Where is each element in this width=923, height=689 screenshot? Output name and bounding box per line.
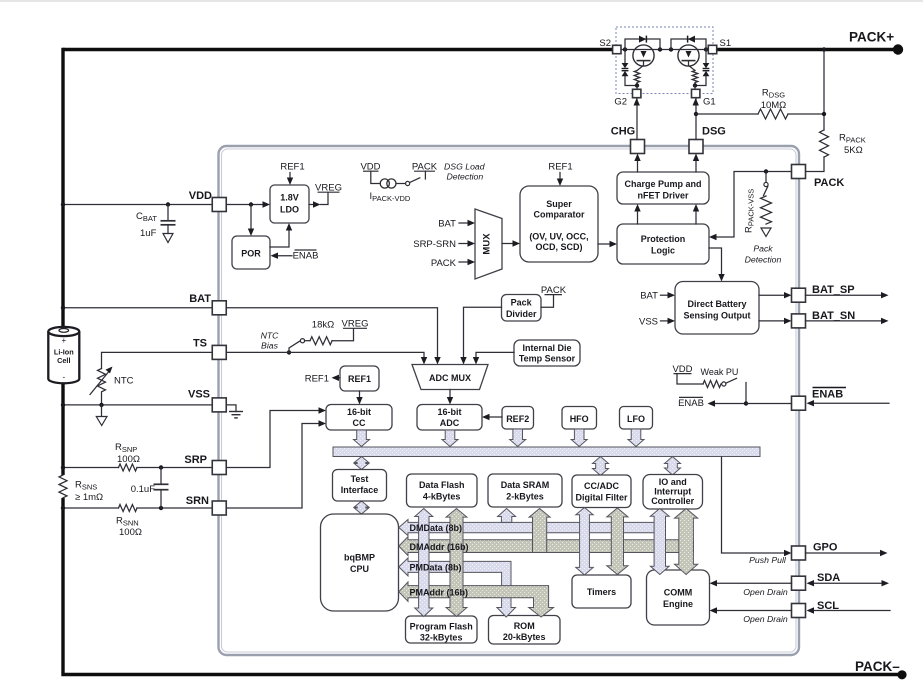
wire MUX to Super Comparator xyxy=(502,240,520,246)
page top border xyxy=(0,0,923,2)
block ROM 20-kBytes xyxy=(489,616,561,645)
svg-text:Interface: Interface xyxy=(341,485,379,495)
resistor Weak PU with switch on ENAB xyxy=(672,364,746,404)
pad ENAB xyxy=(792,388,847,411)
svg-text:REF2: REF2 xyxy=(506,414,529,424)
wire VDD to LDO xyxy=(263,201,271,207)
svg-text:BAT: BAT xyxy=(640,291,658,302)
svg-text:-: - xyxy=(62,373,65,382)
svg-text:G2: G2 xyxy=(614,97,627,108)
resistor NTC xyxy=(90,367,134,405)
wire Protection Logic to Charge Pump (left) xyxy=(634,204,640,224)
svg-text:Pack: Pack xyxy=(753,244,773,254)
svg-text:Cell: Cell xyxy=(57,356,70,365)
svg-text:RPACK-VSS: RPACK-VSS xyxy=(744,189,756,233)
svg-text:CC: CC xyxy=(353,418,366,428)
node REF1 into Super Comparator xyxy=(548,162,572,187)
wire GPO external xyxy=(806,550,888,556)
bus arrow IO to COMM addr (bidir) xyxy=(675,509,698,575)
wire Pack Divider to ADC MUX xyxy=(460,307,501,364)
svg-text:TS: TS xyxy=(193,338,207,350)
svg-text:CHG: CHG xyxy=(611,126,635,138)
pad BAT_SP xyxy=(792,284,855,302)
svg-text:1uF: 1uF xyxy=(140,228,157,239)
wire sensing to BAT_SP pad xyxy=(759,292,792,298)
node BAT into sensing xyxy=(640,291,675,302)
pad BAT xyxy=(189,293,226,315)
node ENAB into POR xyxy=(271,250,319,262)
wire Protection Logic to Direct Battery Sensing xyxy=(709,248,725,282)
block Pack Divider xyxy=(502,295,542,322)
wire PACK pad to Protection Logic xyxy=(709,169,792,240)
block REF1 xyxy=(340,366,379,391)
svg-text:ROM: ROM xyxy=(514,621,535,631)
svg-text:DSG Load: DSG Load xyxy=(444,162,486,172)
bus arrow Digital Filter to Timers addr (bidir) xyxy=(607,508,628,575)
svg-text:Program Flash: Program Flash xyxy=(410,622,473,632)
node PACK into Pack Divider xyxy=(541,285,567,307)
wire VDD row xyxy=(61,202,263,206)
pad SCL xyxy=(792,600,840,618)
block LFO xyxy=(620,407,653,430)
block HFO xyxy=(562,407,597,430)
wire ADC MUX to ADC xyxy=(447,390,453,405)
diode D1 bypass (right loop) xyxy=(671,36,706,50)
svg-text:Controller: Controller xyxy=(651,496,694,506)
svg-text:ENAB: ENAB xyxy=(812,389,843,401)
bus arrow IO to COMM data (bidir) xyxy=(650,509,669,575)
pad SDA xyxy=(792,572,841,590)
svg-text:(OV, UV, OCC,: (OV, UV, OCC, xyxy=(529,232,588,242)
resistor RSNP 100ohm xyxy=(115,442,140,471)
bus PMData (8b) xyxy=(399,558,516,617)
svg-text:REF1: REF1 xyxy=(348,374,371,384)
wire PACK+ top rail (thick) xyxy=(63,44,903,54)
bus arrow Test Interface to CPU (bidir) xyxy=(354,501,368,514)
svg-text:REF1: REF1 xyxy=(548,162,572,173)
svg-text:Data Flash: Data Flash xyxy=(419,480,465,490)
svg-text:CBAT: CBAT xyxy=(136,211,157,223)
bus arrow HFO to bus xyxy=(571,429,587,447)
svg-text:PACK+: PACK+ xyxy=(849,30,894,45)
svg-text:RSNP: RSNP xyxy=(115,442,137,454)
wire PACK- bottom rail (thick) xyxy=(61,670,906,679)
current source IPACK-VDD DSG load detection xyxy=(360,162,437,204)
svg-text:RSNN: RSNN xyxy=(116,516,139,528)
block 16-bit CC xyxy=(326,405,392,431)
bus arrow bus to Test Interface (bidir) xyxy=(354,457,368,470)
wire REF1 to CC xyxy=(356,391,362,405)
svg-text:VSS: VSS xyxy=(188,389,210,401)
wire SDA external xyxy=(807,580,890,586)
bus arrow Data SRAM addr up xyxy=(529,509,550,553)
svg-text:CC/ADC: CC/ADC xyxy=(584,481,619,491)
diode Z2 gate zeners xyxy=(622,50,640,88)
wire VSS row xyxy=(61,403,212,426)
cpu bqBMP CPU xyxy=(321,514,399,611)
IC boundary (gray double border) xyxy=(219,146,800,655)
svg-text:nFET Driver: nFET Driver xyxy=(637,191,689,201)
svg-text:RSNS: RSNS xyxy=(75,480,97,492)
wire bus to GPO (push pull) xyxy=(722,457,792,565)
battery Li-Ion Cell xyxy=(48,327,79,383)
bus arrow Data Flash vertical data (bidir) xyxy=(415,509,433,617)
svg-text:Detection: Detection xyxy=(447,172,484,182)
capacitor CBAT xyxy=(136,205,176,243)
svg-text:IO and: IO and xyxy=(659,477,687,487)
block CC/ADC Digital Filter xyxy=(572,475,631,508)
transistor Q2 CHG nFET xyxy=(633,45,654,71)
bus PMAddr (16b) xyxy=(399,582,554,617)
wire sensing to BAT_SN pad xyxy=(759,318,792,324)
svg-text:PACK: PACK xyxy=(814,177,844,189)
bus arrow LFO to bus xyxy=(628,429,644,447)
pad G2 xyxy=(614,86,641,108)
mux ADC MUX xyxy=(412,365,488,390)
svg-text:REF1: REF1 xyxy=(280,162,304,173)
block Data Flash 4-kBytes xyxy=(407,474,478,507)
pad S2 xyxy=(599,38,621,54)
svg-text:0.1uF: 0.1uF xyxy=(131,484,155,495)
wire BAT_SN external xyxy=(806,318,889,324)
pad PACK xyxy=(792,165,845,190)
wire SRP into CC xyxy=(227,407,327,467)
svg-text:LDO: LDO xyxy=(280,205,299,215)
wire CHG gate drive xyxy=(634,98,640,140)
svg-text:Digital Filter: Digital Filter xyxy=(575,493,628,503)
svg-text:VDD: VDD xyxy=(189,190,212,202)
node SRP-SRN into MUX xyxy=(413,239,475,250)
svg-text:Timers: Timers xyxy=(587,587,616,597)
svg-text:bqBMP: bqBMP xyxy=(344,553,375,563)
svg-text:100Ω: 100Ω xyxy=(119,527,142,538)
wire Super Comparator to Protection Logic xyxy=(598,241,617,247)
pad GPO xyxy=(792,542,838,561)
pad VDD xyxy=(189,190,226,212)
wire VDD to POR xyxy=(248,205,254,237)
svg-text:SRN: SRN xyxy=(186,495,209,507)
pad TS xyxy=(193,338,226,360)
block Test Interface xyxy=(333,470,387,502)
svg-text:BAT_SP: BAT_SP xyxy=(812,284,855,296)
wire S2-S1 internal rail xyxy=(613,47,716,51)
bus arrow CC to bus xyxy=(354,430,370,447)
svg-text:Bias: Bias xyxy=(261,341,279,351)
svg-text:Pack: Pack xyxy=(511,298,533,308)
svg-text:DMAddr (16b): DMAddr (16b) xyxy=(410,542,469,552)
svg-text:32-kBytes: 32-kBytes xyxy=(420,633,463,643)
svg-text:VSS: VSS xyxy=(639,317,658,328)
bus arrow REF2 to bus xyxy=(510,429,526,447)
pad SRP xyxy=(184,454,226,475)
block Protection Logic xyxy=(617,224,709,264)
pad G1 xyxy=(692,86,716,108)
svg-text:PMAddr (16b): PMAddr (16b) xyxy=(410,588,469,598)
block Internal Die Temp Sensor xyxy=(514,340,580,366)
node PACK into MUX xyxy=(431,258,475,269)
label DSG Load Detection xyxy=(444,162,486,182)
resistor RSNN 100ohm xyxy=(116,505,142,539)
svg-text:PMData (8b): PMData (8b) xyxy=(410,563,462,573)
regulator 1.8V LDO U-LDO xyxy=(270,185,309,223)
wire REF2 to ADC xyxy=(482,414,502,420)
svg-text:SRP: SRP xyxy=(184,454,207,466)
svg-text:RDSG: RDSG xyxy=(762,88,785,100)
svg-text:MUX: MUX xyxy=(482,233,493,255)
svg-text:POR: POR xyxy=(241,249,261,259)
wire Charge Pump to CHG pad xyxy=(634,154,640,173)
svg-text:10MΩ: 10MΩ xyxy=(761,100,787,111)
block Charge Pump and nFET Driver xyxy=(617,172,709,204)
block Data SRAM 2-kBytes xyxy=(488,474,562,507)
svg-text:REF1: REF1 xyxy=(305,374,329,385)
svg-text:NTC: NTC xyxy=(261,331,280,341)
svg-text:Logic: Logic xyxy=(651,246,675,256)
svg-text:ADC: ADC xyxy=(440,418,460,428)
svg-text:G1: G1 xyxy=(703,97,716,108)
svg-text:Open Drain: Open Drain xyxy=(743,614,788,624)
svg-text:GPO: GPO xyxy=(813,542,838,554)
svg-text:Open Drain: Open Drain xyxy=(743,587,788,597)
svg-text:CPU: CPU xyxy=(350,564,369,574)
node REF1 output label xyxy=(305,374,340,385)
wire BAT row xyxy=(61,306,212,310)
node VREG output of LDO xyxy=(309,183,342,208)
wire left battery rail (thick) xyxy=(61,48,64,673)
bus arrow Digital Filter to Timers data (bidir) xyxy=(576,508,593,575)
svg-text:Sensing Output: Sensing Output xyxy=(684,311,751,321)
svg-text:Super: Super xyxy=(546,199,572,209)
block Direct Battery Sensing Output xyxy=(675,282,759,335)
wire SRN row xyxy=(61,506,212,510)
wire SDA to COMM (open drain) xyxy=(710,580,792,597)
svg-text:BAT: BAT xyxy=(189,293,211,305)
svg-text:S1: S1 xyxy=(720,38,732,49)
svg-text:SRP-SRN: SRP-SRN xyxy=(413,239,456,250)
svg-text:IPACK-VDD: IPACK-VDD xyxy=(370,191,411,203)
svg-text:Charge Pump and: Charge Pump and xyxy=(624,179,701,189)
mux MUX (comparator input) xyxy=(475,209,502,279)
resistor RSNS sense xyxy=(59,475,103,503)
svg-text:Weak PU: Weak PU xyxy=(701,367,739,377)
svg-text:16-bit: 16-bit xyxy=(347,407,371,417)
bus arrow Data Flash vertical addr (bidir) xyxy=(446,509,467,617)
bus arrow bus to IO Interrupt Controller (bidir) xyxy=(665,457,681,476)
node ENAB internal xyxy=(678,397,791,408)
svg-text:BAT: BAT xyxy=(438,219,456,230)
bus arrow Data SRAM data up xyxy=(498,509,516,523)
pad VSS xyxy=(188,389,226,412)
svg-text:20-kBytes: 20-kBytes xyxy=(503,632,546,642)
wire TS row xyxy=(102,350,292,368)
capacitor 0.1uF xyxy=(131,468,169,509)
pad S1 xyxy=(708,38,731,54)
svg-text:BAT_SN: BAT_SN xyxy=(812,310,855,322)
wire ENAB external xyxy=(807,400,890,406)
svg-text:Test: Test xyxy=(351,474,369,484)
svg-text:5KΩ: 5KΩ xyxy=(844,145,863,156)
svg-text:NTC: NTC xyxy=(114,376,134,387)
resistor RPACK-VSS with switch (pack detection) xyxy=(744,172,772,237)
svg-text:4-kBytes: 4-kBytes xyxy=(423,492,461,502)
bus main internal bus xyxy=(333,447,760,457)
svg-text:Interrupt: Interrupt xyxy=(654,487,691,497)
svg-text:OCD, SCD): OCD, SCD) xyxy=(536,242,583,252)
transistor Q1 DSG nFET xyxy=(678,45,699,71)
svg-text:Internal Die: Internal Die xyxy=(522,343,571,353)
svg-text:Detection: Detection xyxy=(745,255,782,265)
pad BAT_SN xyxy=(792,310,856,328)
svg-text:Protection: Protection xyxy=(641,234,686,244)
diode Z1 gate zeners xyxy=(693,50,710,88)
svg-text:PACK: PACK xyxy=(431,258,457,269)
wire DSG gate drive xyxy=(693,98,699,140)
svg-text:ADC MUX: ADC MUX xyxy=(429,373,471,383)
bus DMData (8b) xyxy=(399,520,666,536)
wire SRP row xyxy=(61,465,212,469)
wire Protection Logic to Charge Pump (right) xyxy=(693,204,699,224)
diode D2 bypass (left loop) xyxy=(625,36,660,50)
bus arrow ADC to bus xyxy=(442,430,458,447)
node NTC Bias switch and resistor 18k to VREG xyxy=(261,319,369,353)
svg-text:16-bit: 16-bit xyxy=(437,407,461,417)
label Pack Detection xyxy=(745,244,782,265)
resistor Q2 gate xyxy=(634,71,640,86)
svg-text:PACK–: PACK– xyxy=(855,659,900,674)
block 16-bit ADC xyxy=(417,405,482,431)
svg-text:RPACK: RPACK xyxy=(839,133,866,145)
POR block xyxy=(232,236,270,269)
wire TS to ADC MUX xyxy=(227,352,428,364)
wire POR to LDO xyxy=(270,223,292,247)
resistor RDSG 10Mohm xyxy=(696,88,824,120)
svg-text:DMData (8b): DMData (8b) xyxy=(410,523,463,533)
resistor Q1 gate xyxy=(692,71,698,86)
block Timers xyxy=(572,575,631,608)
svg-text:ENAB: ENAB xyxy=(678,398,704,409)
svg-text:2-kBytes: 2-kBytes xyxy=(506,492,544,502)
pad CHG xyxy=(611,126,645,154)
wire BAT to ADC MUX xyxy=(227,308,441,365)
svg-text:DSG: DSG xyxy=(702,126,726,138)
bus arrow bus to CC/ADC Digital Filter (bidir) xyxy=(593,457,609,476)
svg-text:1.8V: 1.8V xyxy=(280,193,299,203)
wire Charge Pump to DSG pad xyxy=(693,154,699,173)
block REF2 xyxy=(502,407,534,430)
pad DSG xyxy=(689,126,726,154)
svg-text:Engine: Engine xyxy=(663,599,693,609)
svg-text:Data SRAM: Data SRAM xyxy=(501,480,550,490)
wire Temp Sensor to ADC MUX xyxy=(473,352,514,364)
svg-text:SDA: SDA xyxy=(817,572,840,584)
pad SRN xyxy=(186,495,226,515)
svg-text:Divider: Divider xyxy=(506,309,537,319)
block COMM Engine xyxy=(647,570,710,625)
wire SRN into CC xyxy=(227,420,327,508)
svg-text:Temp Sensor: Temp Sensor xyxy=(519,354,576,364)
node VSS into sensing xyxy=(639,317,675,328)
svg-text:+: + xyxy=(61,336,66,345)
svg-text:LFO: LFO xyxy=(627,414,645,424)
svg-text:S2: S2 xyxy=(599,38,611,49)
FET pack dashed box xyxy=(616,27,713,94)
svg-text:≥ 1mΩ: ≥ 1mΩ xyxy=(75,492,103,503)
wire SCL external xyxy=(807,607,891,613)
wire SCL to COMM (open drain) xyxy=(710,607,792,624)
svg-text:Direct Battery: Direct Battery xyxy=(687,299,746,309)
ground at VSS pad xyxy=(227,405,244,418)
wire BAT_SP external xyxy=(806,292,889,298)
svg-text:Push Pull: Push Pull xyxy=(749,555,787,565)
node BAT into MUX xyxy=(438,219,475,230)
svg-text:COMM: COMM xyxy=(664,588,693,598)
comparator U-SuperComparator xyxy=(520,186,598,262)
svg-text:100Ω: 100Ω xyxy=(117,454,140,465)
svg-text:18kΩ: 18kΩ xyxy=(312,320,334,331)
svg-text:HFO: HFO xyxy=(570,414,589,424)
resistor RPACK 5Kohm xyxy=(806,47,866,171)
node REF1 into LDO xyxy=(280,162,304,186)
block IO and Interrupt Controller xyxy=(643,475,703,510)
block Program Flash 32-kBytes xyxy=(406,616,478,643)
bus DMAddr (16b) xyxy=(399,537,694,556)
svg-text:ENAB: ENAB xyxy=(293,251,319,262)
svg-text:Comparator: Comparator xyxy=(533,210,585,220)
